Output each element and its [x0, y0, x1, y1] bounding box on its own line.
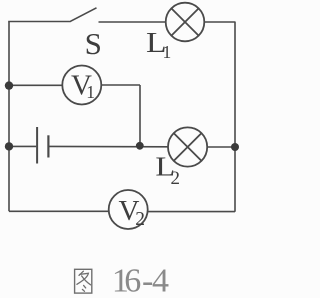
wire corner down to node C — [139, 85, 141, 146]
battery long plate — [36, 127, 38, 164]
svg-text:S: S — [85, 26, 102, 61]
wire node A to V1 — [9, 84, 62, 86]
wire battery branch — [9, 145, 36, 147]
svg-text:1: 1 — [163, 42, 172, 62]
wire L2 to right rail — [207, 146, 235, 148]
svg-text:1: 1 — [86, 82, 95, 102]
wire L1 to right rail — [204, 21, 235, 23]
wire bottom to V2 — [9, 210, 108, 212]
node C junction dot (V1/battery/L2) — [136, 142, 144, 150]
battery short plate — [47, 135, 49, 157]
svg-text:6: 6 — [124, 263, 141, 298]
svg-text:2: 2 — [171, 168, 181, 189]
caption text 16-4 — [112, 263, 169, 298]
node B junction dot (battery) — [5, 142, 13, 150]
node D junction dot (L2 right rail) — [231, 143, 239, 151]
wire V1 to corner — [101, 84, 140, 86]
wire battery to L2 — [49, 145, 167, 147]
caption character 图 (drawn) — [75, 269, 92, 293]
wire left vertical — [8, 22, 10, 212]
wire right vertical rail — [234, 22, 236, 212]
voltmeter V1 circle — [62, 66, 101, 105]
wire switch to L1 — [99, 21, 166, 23]
node A junction dot — [5, 81, 13, 89]
lamp L2 — [168, 127, 207, 166]
svg-text:4: 4 — [152, 263, 169, 298]
svg-text:2: 2 — [135, 209, 145, 230]
wire V2 to right rail — [148, 211, 235, 213]
voltmeter V2 circle — [109, 190, 148, 229]
lamp L1 — [166, 3, 205, 42]
switch S lever — [70, 8, 97, 22]
wire top horizontal — [8, 21, 69, 23]
